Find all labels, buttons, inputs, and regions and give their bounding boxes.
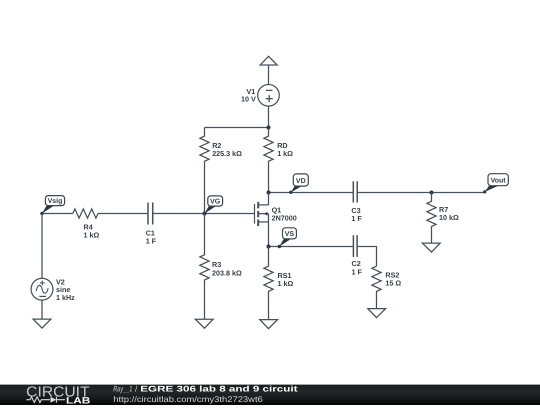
svg-text:EGRE 306 lab 8 and 9 circuit: EGRE 306 lab 8 and 9 circuit xyxy=(140,385,298,394)
svg-text:Vsig: Vsig xyxy=(48,197,63,205)
svg-text:2N7000: 2N7000 xyxy=(272,213,297,222)
capacitor C2 xyxy=(352,235,363,276)
junction VG xyxy=(203,212,207,216)
wire input left segment xyxy=(42,213,73,215)
wire VS rail left xyxy=(269,246,354,248)
node Vsig xyxy=(40,196,64,216)
junction R7 xyxy=(430,191,434,195)
svg-text:Ray__1: Ray__1 xyxy=(113,385,132,394)
svg-text:10 V: 10 V xyxy=(241,95,256,104)
power flag V+ xyxy=(260,56,277,84)
resistor RS2 xyxy=(372,266,401,308)
svg-text:LAB: LAB xyxy=(66,396,91,405)
voltage source V1 xyxy=(241,85,279,107)
wire V1 bottom to junction xyxy=(268,106,270,127)
source V2 xyxy=(31,277,75,302)
junction VS xyxy=(267,245,271,249)
wire Vsig down to V2 xyxy=(41,214,43,279)
node VD xyxy=(289,174,308,194)
svg-text:1 kHz: 1 kHz xyxy=(56,293,75,302)
resistor RD xyxy=(264,128,293,193)
resistor R7 xyxy=(427,193,459,244)
svg-text:10 kΩ: 10 kΩ xyxy=(439,213,459,222)
svg-text:VG: VG xyxy=(210,199,221,206)
svg-text:http://circuitlab.com/cmy3th27: http://circuitlab.com/cmy3th2723wt6 xyxy=(113,395,263,404)
svg-text:1 kΩ: 1 kΩ xyxy=(84,230,100,239)
wire R4 to C1 xyxy=(98,213,148,215)
svg-text:1 kΩ: 1 kΩ xyxy=(278,279,294,288)
logo schematic line xyxy=(27,397,66,403)
wire VD rail right xyxy=(357,192,485,194)
capacitor C1 xyxy=(146,203,157,246)
resistor R4 xyxy=(73,209,100,239)
junction VD xyxy=(267,191,271,195)
ground under RS2 xyxy=(368,309,386,318)
resistor R3 xyxy=(200,214,242,319)
transistor Q1 xyxy=(255,193,297,247)
ground under RS1 xyxy=(260,320,278,329)
junction top xyxy=(267,126,271,130)
svg-text:225.3 kΩ: 225.3 kΩ xyxy=(212,149,242,158)
node VG xyxy=(205,196,223,214)
wire C1 to gate xyxy=(153,213,255,215)
svg-text:203.8 kΩ: 203.8 kΩ xyxy=(212,268,242,277)
wire VS rail right + corner xyxy=(357,247,376,267)
svg-text:1 F: 1 F xyxy=(352,268,363,277)
svg-text:1 F: 1 F xyxy=(351,214,362,223)
node Vout xyxy=(483,174,508,194)
svg-text:1 F: 1 F xyxy=(146,237,157,246)
wire VD rail left xyxy=(269,192,354,194)
wire top rail to R2 xyxy=(205,127,269,129)
svg-text:Vout: Vout xyxy=(491,178,507,185)
resistor R2 xyxy=(200,128,242,214)
ground under V2 xyxy=(33,319,51,328)
ground under R7 xyxy=(422,243,440,252)
wire V2 to ground xyxy=(41,300,43,319)
resistor RS1 xyxy=(264,247,294,320)
node VS xyxy=(278,228,297,248)
ground under R3 xyxy=(195,319,213,328)
capacitor C3 xyxy=(351,181,362,223)
svg-text:1 kΩ: 1 kΩ xyxy=(277,149,293,158)
svg-text:VD: VD xyxy=(296,178,306,185)
svg-text:15 Ω: 15 Ω xyxy=(385,279,401,288)
svg-text:VS: VS xyxy=(285,231,295,238)
